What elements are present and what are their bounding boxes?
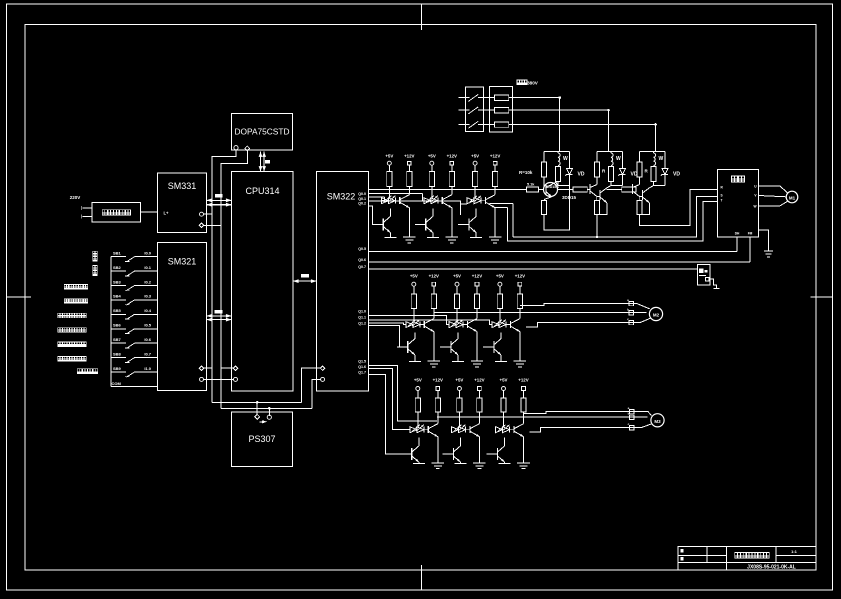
svg-text:M1: M1 (789, 196, 796, 201)
svg-text:I1.0: I1.0 (144, 366, 151, 371)
svg-text:1:1: 1:1 (791, 549, 798, 554)
svg-text:+5V: +5V (496, 274, 504, 279)
svg-text:SM331: SM331 (168, 181, 197, 191)
svg-text:Q1.7: Q1.7 (358, 371, 366, 375)
svg-text:+5V: +5V (410, 274, 418, 279)
svg-text:SB8: SB8 (113, 351, 122, 356)
svg-text:COM: COM (112, 381, 122, 386)
svg-text:SB6: SB6 (113, 323, 122, 328)
svg-text:+5V: +5V (471, 154, 479, 159)
svg-text:I0.4: I0.4 (144, 308, 151, 313)
svg-text:+12V: +12V (515, 274, 525, 279)
svg-text:SB5: SB5 (113, 308, 122, 313)
svg-text:+5V: +5V (455, 378, 463, 383)
svg-text:M3: M3 (654, 419, 661, 424)
svg-text:+5V: +5V (385, 154, 393, 159)
svg-text:Q1.6: Q1.6 (358, 365, 366, 369)
svg-text:+5V: +5V (500, 378, 508, 383)
svg-text:PS307: PS307 (248, 434, 275, 444)
svg-text:+5V: +5V (428, 154, 436, 159)
svg-text:JX08S-95-021-0K-AL: JX08S-95-021-0K-AL (747, 564, 796, 570)
svg-text:R=10k: R=10k (519, 170, 533, 175)
svg-text:DH: DH (735, 232, 740, 236)
svg-text:+12V: +12V (474, 378, 484, 383)
svg-text:SB3: SB3 (113, 279, 122, 284)
svg-text:Q1.2: Q1.2 (358, 321, 366, 325)
svg-text:M2: M2 (653, 313, 660, 318)
svg-text:Q0.2: Q0.2 (358, 202, 366, 206)
svg-text:Q0.5: Q0.5 (358, 247, 366, 251)
svg-text:+12V: +12V (518, 378, 528, 383)
svg-text:+12V: +12V (429, 274, 439, 279)
svg-text:5.1k: 5.1k (527, 183, 535, 187)
svg-text:3DD15A: 3DD15A (545, 185, 559, 189)
svg-text:SM322: SM322 (327, 192, 356, 202)
svg-text:W: W (753, 204, 756, 208)
svg-text:+12V: +12V (490, 154, 500, 159)
svg-text:I0.0: I0.0 (144, 251, 151, 256)
svg-text:DOPA75CSTD: DOPA75CSTD (235, 128, 290, 137)
svg-text:+12V: +12V (433, 378, 443, 383)
svg-text:W: W (616, 156, 621, 162)
svg-text:W: W (659, 156, 664, 162)
svg-text:I0.1: I0.1 (144, 265, 151, 270)
svg-text:+12V: +12V (447, 154, 457, 159)
svg-text:Q1.5: Q1.5 (358, 359, 366, 363)
svg-text:S: S (721, 193, 723, 197)
svg-text:L+: L+ (164, 211, 170, 216)
svg-text:+5V: +5V (414, 378, 422, 383)
svg-text:I0.7: I0.7 (144, 351, 151, 356)
svg-text:I0.5: I0.5 (144, 323, 151, 328)
svg-text:SB9: SB9 (113, 366, 122, 371)
svg-text:Q0.6: Q0.6 (358, 258, 366, 262)
svg-text:+5V: +5V (453, 274, 461, 279)
svg-text:380V: 380V (527, 80, 539, 85)
svg-text:T: T (721, 198, 723, 202)
svg-text:Q0.0: Q0.0 (358, 192, 366, 196)
svg-text:I0.2: I0.2 (144, 279, 151, 284)
svg-text:SB2: SB2 (113, 265, 122, 270)
svg-text:VD: VD (673, 172, 680, 178)
svg-text:SM321: SM321 (168, 257, 197, 267)
svg-text:+12V: +12V (404, 154, 414, 159)
svg-text:+12V: +12V (472, 274, 482, 279)
svg-text:SB7: SB7 (113, 337, 122, 342)
svg-text:b: b (628, 412, 630, 416)
svg-text:CPU314: CPU314 (245, 186, 279, 196)
svg-text:Q1.0: Q1.0 (358, 309, 366, 313)
svg-text:W: W (563, 156, 568, 162)
svg-text:I0.6: I0.6 (144, 337, 151, 342)
svg-text:VD: VD (578, 172, 585, 178)
svg-text:FM: FM (748, 232, 753, 236)
svg-text:Q0.7: Q0.7 (358, 265, 366, 269)
svg-text:Q0.1: Q0.1 (358, 197, 366, 201)
svg-text:SB1: SB1 (113, 251, 122, 256)
svg-text:I0.3: I0.3 (144, 294, 151, 299)
svg-text:SB4: SB4 (113, 294, 122, 299)
svg-text:b: b (627, 308, 629, 312)
svg-text:220V: 220V (70, 195, 81, 200)
svg-text:Q1.1: Q1.1 (358, 315, 366, 319)
